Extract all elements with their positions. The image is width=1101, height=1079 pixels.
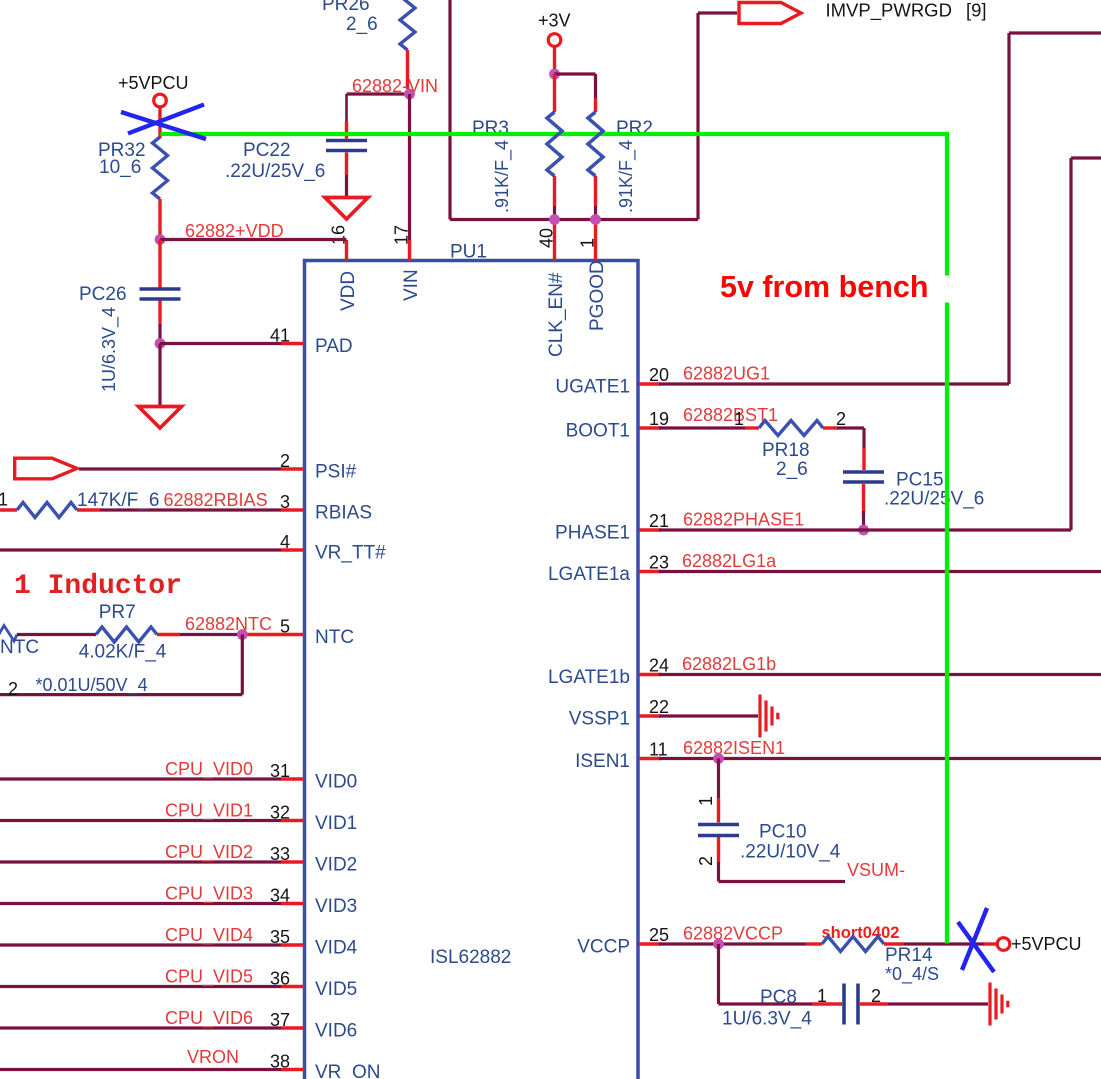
svg-text:VID5: VID5 (315, 979, 357, 1000)
svg-text:2_6: 2_6 (776, 459, 808, 480)
svg-text:PGOOD: PGOOD (587, 260, 608, 331)
svg-text:1 Inductor: 1 Inductor (14, 571, 182, 602)
svg-text:PR26: PR26 (322, 0, 370, 15)
svg-text:LGATE1b: LGATE1b (548, 667, 630, 688)
svg-text:1: 1 (734, 409, 744, 429)
svg-text:ISEN1: ISEN1 (575, 751, 630, 772)
svg-text:40: 40 (537, 228, 557, 248)
svg-text:62882UG1: 62882UG1 (683, 364, 770, 384)
svg-text:4.02K/F_4: 4.02K/F_4 (79, 642, 167, 663)
svg-text:.22U/25V_6: .22U/25V_6 (884, 489, 984, 510)
svg-text:NTC: NTC (0, 637, 39, 658)
svg-text:CPU_VID3: CPU_VID3 (165, 884, 253, 905)
svg-text:*0.01U/50V_4: *0.01U/50V_4 (36, 675, 148, 696)
svg-text:+5VPCU: +5VPCU (118, 73, 189, 93)
svg-text:62882VCCP: 62882VCCP (683, 924, 783, 944)
svg-text:PC26: PC26 (79, 284, 127, 305)
svg-text:16: 16 (329, 225, 349, 245)
svg-text:CPU_VID0: CPU_VID0 (165, 759, 253, 780)
svg-text:VID2: VID2 (315, 855, 357, 876)
svg-text:*0_4/S: *0_4/S (885, 964, 939, 985)
svg-text:23: 23 (649, 553, 669, 573)
svg-text:+5VPCU: +5VPCU (1011, 934, 1082, 954)
svg-text:IMVP_PWRGD: IMVP_PWRGD (826, 0, 952, 22)
svg-text:62882LG1b: 62882LG1b (682, 654, 776, 674)
svg-text:25: 25 (649, 925, 669, 945)
svg-text:2: 2 (280, 451, 290, 471)
svg-text:62882PHASE1: 62882PHASE1 (683, 510, 804, 530)
svg-text:19: 19 (649, 409, 669, 429)
svg-text:62882-VIN: 62882-VIN (352, 76, 438, 96)
svg-text:CPU_VID1: CPU_VID1 (165, 801, 253, 822)
svg-text:PR18: PR18 (762, 440, 810, 461)
svg-text:2: 2 (836, 409, 846, 429)
svg-text:LGATE1a: LGATE1a (548, 564, 630, 585)
svg-text:20: 20 (649, 365, 669, 385)
svg-text:PC10: PC10 (759, 822, 807, 843)
svg-text:21: 21 (649, 511, 669, 531)
svg-text:2: 2 (8, 679, 18, 699)
svg-text:CPU_VID6: CPU_VID6 (165, 1008, 253, 1029)
svg-text:22: 22 (649, 697, 669, 717)
svg-text:PSI#: PSI# (315, 462, 357, 483)
svg-text:VCCP: VCCP (577, 937, 630, 958)
svg-text:62882NTC: 62882NTC (185, 614, 272, 634)
svg-text:10_6: 10_6 (99, 157, 141, 178)
svg-text:VSSP1: VSSP1 (569, 709, 630, 730)
svg-text:VID6: VID6 (315, 1021, 357, 1042)
svg-text:PU1: PU1 (450, 242, 487, 263)
svg-text:VRON: VRON (187, 1047, 239, 1067)
svg-text:1U/6.3V_4: 1U/6.3V_4 (722, 1009, 812, 1030)
svg-text:1: 1 (578, 238, 598, 248)
svg-text:PC8: PC8 (760, 987, 797, 1008)
svg-text:4: 4 (280, 532, 290, 552)
svg-text:VSUM-: VSUM- (847, 860, 905, 880)
svg-text:24: 24 (649, 656, 669, 676)
svg-text:1: 1 (0, 490, 8, 510)
svg-text:1U/6.3V_4: 1U/6.3V_4 (99, 307, 120, 392)
svg-text:PAD: PAD (315, 336, 353, 357)
svg-text:NTC: NTC (315, 627, 354, 648)
svg-text:ISL62882: ISL62882 (430, 947, 511, 968)
svg-text:3: 3 (280, 492, 290, 512)
svg-text:[9]: [9] (966, 0, 987, 21)
svg-text:.22U/10V_4: .22U/10V_4 (740, 842, 841, 863)
svg-text:62882LG1a: 62882LG1a (682, 551, 777, 571)
svg-text:VR_TT#: VR_TT# (315, 543, 386, 564)
svg-text:PC22: PC22 (243, 140, 291, 161)
svg-text:VIN: VIN (401, 269, 422, 301)
svg-text:.91K/F_4: .91K/F_4 (492, 140, 513, 213)
svg-text:.91K/F_4: .91K/F_4 (616, 140, 637, 213)
svg-text:147K/F_6: 147K/F_6 (77, 490, 159, 511)
svg-text:62882RBIAS: 62882RBIAS (164, 490, 268, 510)
svg-text:VID0: VID0 (315, 772, 357, 793)
svg-text:VID1: VID1 (315, 813, 357, 834)
svg-text:RBIAS: RBIAS (315, 503, 372, 524)
svg-text:PR7: PR7 (99, 602, 136, 623)
svg-text:CPU_VID2: CPU_VID2 (165, 842, 253, 863)
svg-text:BOOT1: BOOT1 (566, 421, 630, 442)
svg-text:1: 1 (817, 986, 827, 1006)
svg-text:62882ISEN1: 62882ISEN1 (683, 738, 785, 758)
svg-text:2_6: 2_6 (346, 14, 378, 35)
svg-text:CPU_VID4: CPU_VID4 (165, 925, 253, 946)
svg-text:1: 1 (696, 796, 716, 806)
svg-text:VDD: VDD (338, 271, 359, 311)
svg-text:VID3: VID3 (315, 896, 357, 917)
svg-text:PHASE1: PHASE1 (555, 523, 630, 544)
svg-text:VR_ON: VR_ON (315, 1062, 380, 1079)
svg-text:5: 5 (280, 617, 290, 637)
svg-text:short0402: short0402 (822, 924, 900, 942)
svg-text:UGATE1: UGATE1 (555, 377, 630, 398)
svg-text:VID4: VID4 (315, 938, 358, 959)
svg-text:11: 11 (649, 740, 668, 760)
svg-text:CPU_VID5: CPU_VID5 (165, 967, 253, 988)
svg-text:CLK_EN#: CLK_EN# (546, 272, 567, 357)
svg-text:.22U/25V_6: .22U/25V_6 (225, 161, 325, 182)
svg-text:5v from bench: 5v from bench (720, 270, 928, 304)
svg-text:PC15: PC15 (896, 470, 944, 491)
svg-text:2: 2 (696, 856, 716, 866)
svg-text:+3V: +3V (538, 11, 571, 31)
svg-text:PR14: PR14 (885, 945, 933, 966)
